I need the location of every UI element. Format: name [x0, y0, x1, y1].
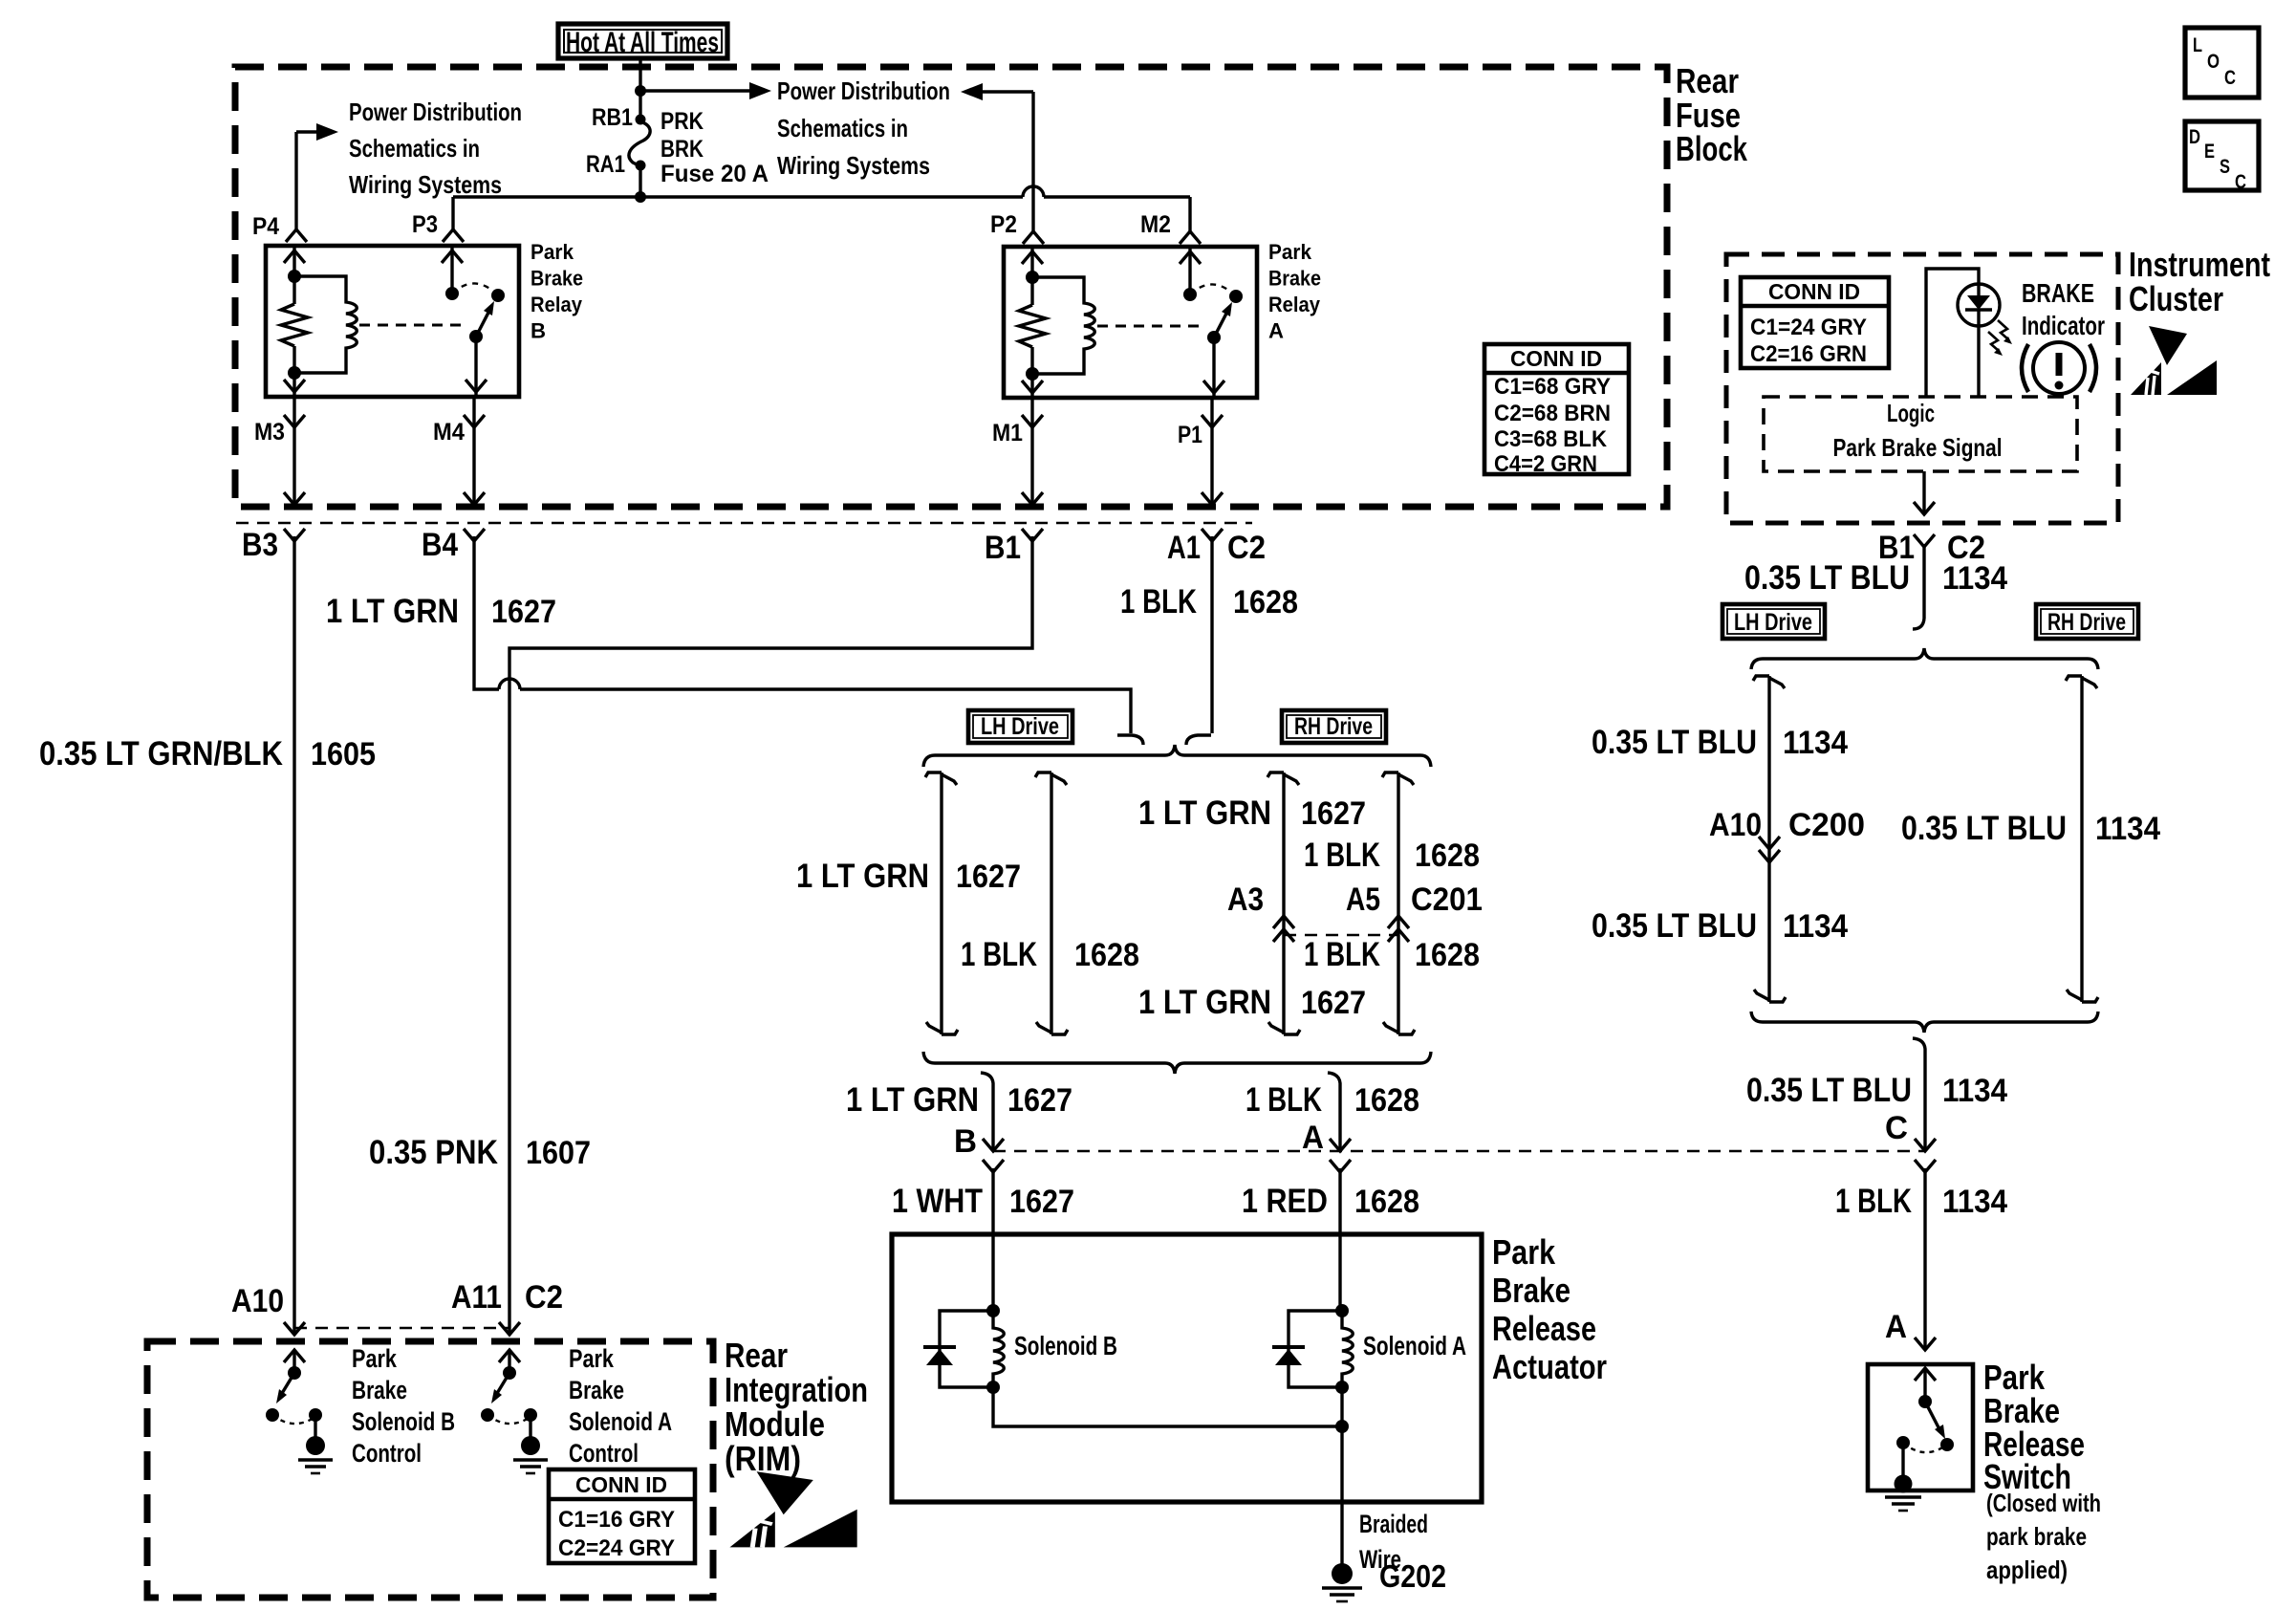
svg-text:CONN ID: CONN ID: [1768, 279, 1860, 304]
svg-text:Block: Block: [1676, 129, 1748, 168]
svg-text:1628: 1628: [1354, 1184, 1419, 1220]
svg-text:1 BLK: 1 BLK: [961, 936, 1037, 973]
svg-text:1134: 1134: [1942, 1184, 2007, 1220]
svg-text:1134: 1134: [1783, 725, 1848, 761]
svg-text:A: A: [1885, 1309, 1907, 1345]
svg-text:Solenoid B: Solenoid B: [352, 1407, 455, 1436]
svg-text:M2: M2: [1140, 211, 1171, 238]
svg-text:1627: 1627: [1301, 795, 1366, 832]
svg-text:Park: Park: [531, 240, 574, 264]
svg-text:Module: Module: [725, 1404, 825, 1444]
svg-text:Fuse 20 A: Fuse 20 A: [661, 161, 769, 187]
svg-text:A3: A3: [1227, 881, 1264, 918]
svg-text:Brake: Brake: [569, 1376, 624, 1404]
svg-text:1628: 1628: [1415, 937, 1480, 973]
svg-text:1 LT GRN: 1 LT GRN: [326, 593, 459, 630]
svg-text:CONN ID: CONN ID: [1510, 346, 1602, 371]
svg-text:1627: 1627: [1009, 1184, 1074, 1220]
svg-text:Rear: Rear: [1676, 61, 1739, 100]
svg-text:BRAKE: BRAKE: [2022, 278, 2094, 308]
svg-text:LH Drive: LH Drive: [981, 713, 1059, 740]
svg-text:applied): applied): [1986, 1556, 2068, 1584]
svg-text:RH Drive: RH Drive: [2047, 609, 2126, 636]
svg-text:1607: 1607: [526, 1135, 591, 1171]
svg-text:C2: C2: [525, 1279, 563, 1316]
svg-text:C1=68 GRY: C1=68 GRY: [1494, 374, 1611, 400]
svg-text:1 WHT: 1 WHT: [892, 1183, 983, 1220]
svg-text:Rear: Rear: [725, 1336, 788, 1375]
svg-text:C1=24 GRY: C1=24 GRY: [1750, 315, 1867, 340]
svg-text:Wiring Systems: Wiring Systems: [349, 170, 502, 199]
svg-text:1134: 1134: [2095, 811, 2160, 847]
svg-text:1 BLK: 1 BLK: [1120, 583, 1197, 620]
svg-text:Wiring Systems: Wiring Systems: [777, 151, 930, 180]
svg-text:A5: A5: [1346, 881, 1380, 918]
svg-text:E: E: [2204, 141, 2215, 163]
svg-text:1627: 1627: [1007, 1082, 1072, 1119]
svg-text:Actuator: Actuator: [1492, 1347, 1607, 1386]
svg-text:Integration: Integration: [725, 1370, 868, 1409]
svg-text:C: C: [1885, 1110, 1908, 1146]
svg-text:1627: 1627: [956, 859, 1021, 895]
svg-text:Park: Park: [1268, 240, 1312, 264]
svg-text:Solenoid A: Solenoid A: [569, 1407, 672, 1436]
svg-text:RH Drive: RH Drive: [1294, 713, 1373, 740]
svg-text:Brake: Brake: [352, 1376, 407, 1404]
svg-text:1 BLK: 1 BLK: [1304, 837, 1380, 874]
svg-text:P4: P4: [252, 213, 279, 240]
svg-text:B: B: [531, 319, 546, 343]
svg-text:B4: B4: [422, 527, 458, 563]
svg-text:Power Distribution: Power Distribution: [777, 76, 950, 105]
svg-text:Braided: Braided: [1359, 1510, 1428, 1538]
svg-text:A10: A10: [1709, 807, 1762, 843]
svg-text:B1: B1: [985, 530, 1021, 566]
svg-text:Park: Park: [569, 1344, 615, 1373]
svg-text:0.35 LT BLU: 0.35 LT BLU: [1592, 724, 1757, 761]
svg-text:Control: Control: [569, 1439, 639, 1468]
svg-text:0.35 LT BLU: 0.35 LT BLU: [1901, 810, 2067, 847]
svg-text:A11: A11: [451, 1279, 502, 1316]
svg-text:1628: 1628: [1074, 937, 1139, 973]
svg-text:Relay: Relay: [531, 293, 583, 316]
svg-text:A10: A10: [231, 1283, 284, 1319]
svg-text:(RIM): (RIM): [725, 1439, 801, 1478]
svg-text:1627: 1627: [1301, 985, 1366, 1021]
svg-text:LH Drive: LH Drive: [1734, 609, 1812, 636]
svg-text:Schematics in: Schematics in: [777, 114, 908, 142]
svg-text:Brake: Brake: [1492, 1271, 1570, 1310]
svg-text:A1: A1: [1167, 530, 1201, 566]
svg-text:Control: Control: [352, 1439, 422, 1468]
svg-text:M4: M4: [433, 419, 465, 446]
svg-text:1 BLK: 1 BLK: [1245, 1081, 1322, 1119]
svg-text:1 LT GRN: 1 LT GRN: [796, 858, 929, 895]
svg-text:PRK: PRK: [661, 108, 704, 135]
svg-text:Brake: Brake: [531, 267, 583, 291]
svg-text:Park: Park: [352, 1344, 398, 1373]
svg-text:P2: P2: [990, 211, 1017, 238]
svg-text:1627: 1627: [491, 594, 556, 630]
svg-text:0.35 PNK: 0.35 PNK: [369, 1134, 498, 1171]
svg-text:G202: G202: [1379, 1558, 1446, 1594]
svg-text:0.35 LT GRN/BLK: 0.35 LT GRN/BLK: [39, 735, 283, 772]
svg-text:Power Distribution: Power Distribution: [349, 98, 522, 126]
svg-text:P1: P1: [1178, 422, 1202, 448]
svg-text:park brake: park brake: [1986, 1522, 2087, 1551]
svg-text:1628: 1628: [1233, 584, 1298, 620]
svg-text:RA1: RA1: [586, 151, 625, 178]
svg-text:C2=68 BRN: C2=68 BRN: [1494, 401, 1611, 426]
svg-text:Solenoid A: Solenoid A: [1363, 1331, 1466, 1360]
svg-text:1 LT GRN: 1 LT GRN: [846, 1081, 979, 1119]
svg-text:(Closed with: (Closed with: [1986, 1489, 2101, 1517]
svg-text:1 BLK: 1 BLK: [1304, 936, 1380, 973]
svg-text:P3: P3: [412, 211, 438, 238]
svg-text:Logic: Logic: [1887, 399, 1935, 427]
svg-text:O: O: [2207, 51, 2220, 73]
svg-text:C201: C201: [1411, 881, 1483, 918]
svg-text:0.35 LT BLU: 0.35 LT BLU: [1744, 559, 1910, 597]
svg-text:C2=16 GRN: C2=16 GRN: [1750, 341, 1867, 367]
svg-text:1628: 1628: [1415, 838, 1480, 874]
svg-text:Schematics in: Schematics in: [349, 134, 480, 163]
svg-text:Park Brake Signal: Park Brake Signal: [1833, 433, 2003, 462]
svg-text:C1=16 GRY: C1=16 GRY: [558, 1507, 675, 1533]
svg-text:0.35 LT BLU: 0.35 LT BLU: [1592, 907, 1757, 945]
svg-text:BRK: BRK: [661, 136, 704, 163]
svg-text:Instrument: Instrument: [2129, 245, 2270, 284]
svg-text:1628: 1628: [1354, 1082, 1419, 1119]
svg-text:C4=2 GRN: C4=2 GRN: [1494, 451, 1597, 477]
svg-text:B: B: [954, 1123, 977, 1160]
svg-text:1 LT GRN: 1 LT GRN: [1138, 984, 1271, 1021]
svg-text:D: D: [2189, 126, 2200, 148]
svg-text:C2=24 GRY: C2=24 GRY: [558, 1535, 675, 1561]
svg-text:1605: 1605: [311, 736, 376, 772]
svg-text:Hot At All Times: Hot At All Times: [566, 27, 719, 58]
svg-text:1 RED: 1 RED: [1242, 1183, 1328, 1220]
svg-text:1134: 1134: [1942, 1073, 2007, 1109]
svg-text:C200: C200: [1788, 807, 1865, 843]
svg-text:CONN ID: CONN ID: [575, 1472, 667, 1497]
svg-text:C3=68 BLK: C3=68 BLK: [1494, 426, 1608, 452]
svg-text:RB1: RB1: [592, 104, 633, 131]
svg-text:C: C: [2235, 171, 2246, 193]
svg-text:C2: C2: [1227, 530, 1266, 566]
svg-text:S: S: [2220, 156, 2230, 178]
svg-text:L: L: [2193, 34, 2202, 56]
svg-text:Cluster: Cluster: [2129, 279, 2223, 318]
svg-text:Park: Park: [1492, 1232, 1556, 1272]
svg-text:Release: Release: [1492, 1309, 1596, 1348]
svg-text:1134: 1134: [1942, 560, 2007, 597]
svg-text:Indicator: Indicator: [2022, 311, 2105, 340]
svg-text:A: A: [1268, 319, 1284, 343]
svg-text:1 BLK: 1 BLK: [1835, 1183, 1912, 1220]
svg-text:C: C: [2224, 67, 2236, 89]
svg-text:0.35 LT BLU: 0.35 LT BLU: [1746, 1072, 1912, 1109]
svg-text:B3: B3: [242, 527, 278, 563]
svg-text:M3: M3: [254, 419, 285, 446]
svg-text:1 LT GRN: 1 LT GRN: [1138, 794, 1271, 832]
svg-text:Brake: Brake: [1268, 267, 1321, 291]
svg-text:Relay: Relay: [1268, 293, 1321, 316]
svg-text:Solenoid B: Solenoid B: [1014, 1331, 1117, 1360]
svg-text:1134: 1134: [1783, 908, 1848, 945]
svg-text:M1: M1: [992, 420, 1023, 446]
